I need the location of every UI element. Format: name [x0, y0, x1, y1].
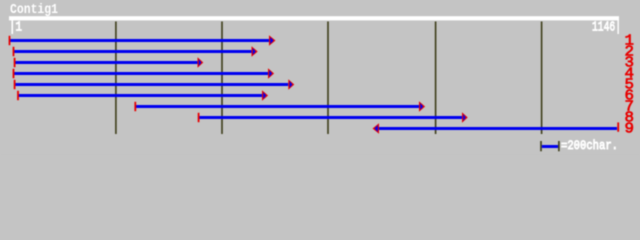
- read 1 line: [10, 39, 269, 42]
- svg-text:9: 9: [625, 120, 635, 137]
- legend left tick: [540, 141, 542, 151]
- read 7 line: [136, 105, 419, 108]
- read 7 end tick: [134, 102, 136, 111]
- read 2 arrowhead: [252, 46, 258, 57]
- read 2 end tick: [13, 47, 15, 56]
- read 1 end tick: [9, 36, 11, 45]
- read 9 arrowhead: [373, 123, 380, 134]
- grid line at 800: [435, 22, 437, 135]
- read 1 arrowhead: [269, 35, 276, 46]
- read 6 end tick: [17, 91, 19, 100]
- read 8 arrowhead: [462, 112, 468, 123]
- ruler bar: [9, 16, 619, 20]
- read 5 end tick: [14, 80, 16, 89]
- read 6 arrowhead: [262, 90, 268, 101]
- read 9 end tick: [617, 122, 619, 131]
- read 4 arrowhead: [268, 68, 274, 79]
- read 4 line: [14, 72, 268, 75]
- read 8 line: [200, 116, 463, 119]
- read 9 line: [379, 127, 617, 130]
- svg-text:1146|: 1146|: [592, 20, 621, 36]
- legend scale bar: [542, 145, 558, 148]
- read 8 end tick: [198, 113, 200, 122]
- grid line at 400: [221, 22, 223, 135]
- svg-text:|1: |1: [9, 20, 22, 36]
- grid line at 200: [115, 22, 117, 135]
- read 4 end tick: [13, 69, 15, 78]
- read 5 arrowhead: [288, 79, 294, 90]
- read 2 line: [14, 50, 252, 53]
- grid line at 600: [327, 22, 329, 135]
- read 7 arrowhead: [419, 101, 425, 112]
- read 5 line: [15, 83, 288, 86]
- read 3 line: [15, 61, 198, 64]
- legend right tick: [558, 141, 560, 151]
- svg-text:Contig1: Contig1: [10, 2, 58, 18]
- read 6 line: [19, 94, 263, 97]
- grid line at 1000: [541, 22, 543, 135]
- svg-text:=200char.: =200char.: [561, 138, 618, 153]
- read 3 arrowhead: [198, 57, 204, 68]
- read 3 end tick: [14, 58, 16, 67]
